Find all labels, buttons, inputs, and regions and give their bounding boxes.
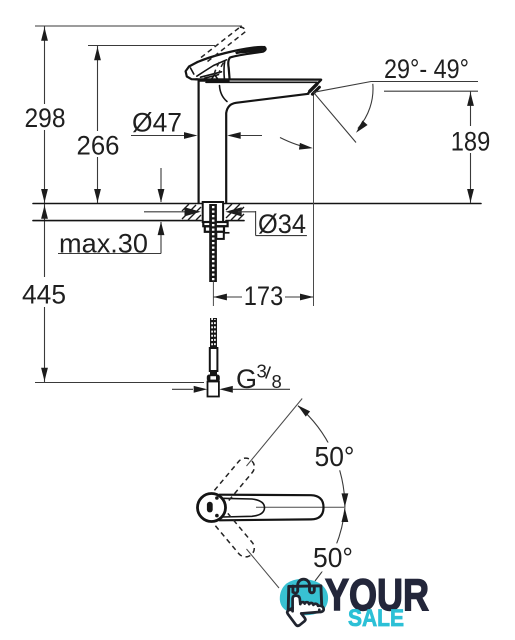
handle neck left edge (223, 61, 226, 79)
svg-text:max.30: max.30 (59, 229, 148, 259)
svg-text:SALE: SALE (348, 605, 404, 632)
small swing arc with arrow (280, 138, 313, 152)
aerator (310, 84, 320, 94)
max.30 dimension (58, 168, 164, 259)
hose tube (210, 348, 218, 375)
top view pivot circle (198, 494, 226, 522)
dimension 445 (22, 204, 66, 382)
Ø34 leader arrows in deck (144, 207, 256, 216)
G 3/8 dimension arrows (172, 386, 290, 393)
shank tube in deck (203, 202, 223, 222)
spout top inner line (206, 81, 317, 83)
dimension 189 (451, 91, 491, 203)
svg-text:29°- 49°: 29°- 49° (384, 54, 469, 84)
extension line from spout tip (313, 91, 315, 306)
dimension 266 (77, 46, 120, 204)
svg-text:50°: 50° (315, 441, 355, 472)
top view handle body (220, 495, 324, 521)
dimension 189 top line (384, 90, 478, 92)
cap crease lines (201, 72, 222, 77)
nut step tick (224, 232, 230, 234)
49 degree diagonal from tip (314, 92, 357, 142)
G 3/8 text (236, 361, 282, 395)
spout underside (226, 94, 308, 203)
handle front knob (186, 62, 198, 79)
end pipe (208, 382, 219, 397)
lower 50 arc (315, 508, 348, 581)
upper 50 arc (295, 403, 348, 508)
knob crease (191, 68, 194, 74)
braided hose (210, 318, 217, 348)
deck hatch right (226, 204, 244, 220)
svg-text:8: 8 (272, 371, 282, 392)
Ø47 dimension (131, 108, 262, 139)
logo bag body (288, 586, 322, 611)
svg-text:3: 3 (257, 361, 267, 382)
pivot bean mark (207, 502, 213, 513)
mounting nut step (216, 232, 224, 239)
cap crease 2 (205, 75, 219, 79)
svg-text:Ø47: Ø47 (132, 108, 182, 138)
mounting nut body (205, 226, 224, 231)
radius line upper (247, 399, 303, 467)
dashed handle stub lower (214, 513, 257, 560)
svg-text:Ø34: Ø34 (258, 209, 306, 239)
handle lever blade top edge (198, 47, 265, 62)
center line below rod (212, 282, 214, 307)
pivot dots (215, 496, 219, 500)
mounting nut flange (203, 222, 227, 226)
deck top line (33, 203, 481, 205)
logo hand outline (287, 596, 323, 626)
logo hand silhouette (287, 596, 324, 626)
handle base dark line (199, 79, 230, 82)
svg-text:266: 266 (77, 131, 120, 161)
bottom reference line (35, 382, 204, 384)
29-49 leader diagonal (314, 82, 372, 93)
dimension 173 (213, 281, 313, 311)
logo bag handle (293, 579, 314, 593)
threaded rod (209, 204, 217, 282)
svg-text:50°: 50° (313, 542, 353, 573)
svg-text:173: 173 (244, 281, 284, 311)
deck bottom line (33, 220, 201, 222)
reference line (266 extent) (88, 45, 215, 47)
hinge wedge mark (212, 75, 218, 80)
coupling nut G3/8 (207, 375, 220, 382)
handle lever top accent band (236, 48, 265, 54)
29-49 arc (353, 84, 373, 135)
svg-text:445: 445 (22, 280, 66, 310)
top view center line (256, 506, 346, 508)
svg-text:298: 298 (25, 103, 66, 133)
dashed handle stub upper (214, 455, 257, 502)
logo teal blob (280, 579, 328, 615)
handle lever tip and underside (228, 47, 265, 79)
Ø34 label box (256, 209, 307, 239)
faucet body top edge (196, 78, 321, 80)
reference line top (298 extent) (35, 25, 242, 27)
lever dashed (raised position) (201, 27, 245, 76)
neck inner curve (220, 86, 228, 102)
radius line lower (247, 549, 280, 588)
svg-text:G: G (236, 364, 257, 394)
top view handle inner contour (222, 498, 265, 517)
faucet body left edge (198, 80, 200, 203)
dimension 298 (25, 26, 66, 203)
deck hatch left (182, 204, 201, 220)
svg-text:189: 189 (451, 127, 491, 157)
spout end chamfer (308, 80, 321, 93)
handle lower-left edge (197, 60, 227, 76)
29-49 leader line (371, 81, 478, 83)
